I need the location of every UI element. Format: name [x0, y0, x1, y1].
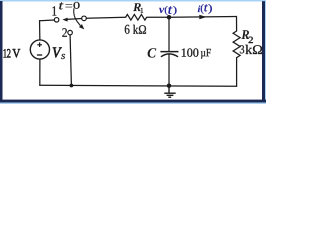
- wire top-left from corner to switch position 1: [40, 19, 55, 22]
- resistor R1 zigzag: [126, 14, 147, 20]
- label 12 V: [4, 49, 21, 57]
- wire from switch position 2 down to bottom rail: [70, 35, 71, 86]
- node v(t) junction dot: [167, 15, 172, 20]
- label VS: [53, 48, 65, 60]
- label i(t): [198, 4, 212, 14]
- wire switch pole to resistor R1: [86, 17, 125, 18]
- capacitor C bottom curved plate: [161, 54, 178, 57]
- switch position 2 terminal circle: [68, 30, 73, 35]
- junction dot position-2 branch on bottom rail: [70, 84, 74, 88]
- label 100 uF: [182, 48, 211, 58]
- voltage source minus sign: [37, 54, 42, 56]
- wire from R2 bottom to bottom-right corner: [236, 58, 238, 87]
- switch motion arrow arc t=0: [74, 8, 81, 25]
- switch motion arrowhead: [79, 24, 84, 29]
- voltage source VS circle: [30, 40, 49, 59]
- label 6 kOhm: [125, 25, 146, 34]
- label 1: [52, 6, 56, 15]
- wire from node to top-right corner: [171, 16, 237, 19]
- wire bottom rail: [40, 84, 237, 87]
- label v(t): [159, 6, 177, 15]
- label R2: [241, 30, 253, 43]
- label 2: [62, 28, 67, 37]
- junction dot capacitor branch on bottom rail: [167, 83, 172, 88]
- label t = 0: [59, 2, 79, 9]
- switch position 1 terminal circle: [54, 18, 59, 23]
- capacitor C top plate: [160, 51, 178, 53]
- wire right vertical from corner to R2: [236, 17, 238, 31]
- label R1: [133, 3, 143, 13]
- wire capacitor bottom lead to bottom rail: [168, 54, 170, 85]
- wire capacitor top lead from node: [168, 17, 170, 51]
- wire from R1 to node v(t): [147, 16, 169, 18]
- switch arm arrowhead touching position 1: [62, 18, 67, 22]
- ground symbol: [164, 86, 175, 98]
- label C: [148, 48, 157, 57]
- wire from source bottom to bottom-left corner: [39, 59, 41, 85]
- switch pole terminal circle: [82, 16, 87, 21]
- resistor R2 vertical zigzag: [233, 31, 240, 58]
- voltage source plus sign: [37, 42, 42, 47]
- switch arm: [67, 18, 82, 21]
- label 3 kOhm: [240, 45, 262, 54]
- wire left vertical from top corner down to source top: [39, 21, 41, 40]
- current arrow i(t) on top wire: [199, 15, 206, 19]
